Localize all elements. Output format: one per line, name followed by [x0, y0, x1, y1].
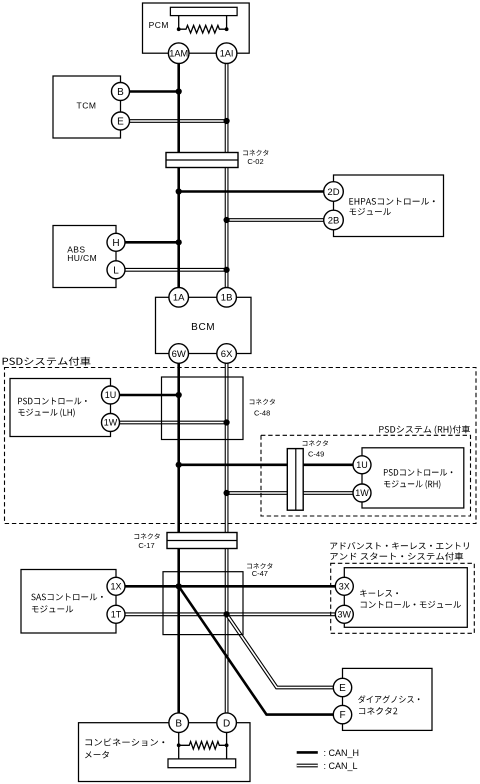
wire TCM pin B to CAN_H: [121, 90, 179, 93]
svg-text:1AM: 1AM: [169, 49, 188, 59]
svg-text:1W: 1W: [104, 418, 118, 428]
wire EHPAS pin 2D to CAN_H: [179, 190, 334, 193]
label combination meter line2: [85, 751, 109, 759]
svg-text:: CAN_H: : CAN_H: [324, 748, 360, 758]
label EHPAS line1: [349, 198, 434, 205]
label advanced keyless line2: [330, 552, 463, 560]
junction CAN_H / EHPAS 2D: [176, 188, 182, 194]
PCM internal wire right: [226, 16, 228, 30]
junction CAN_H / PSD-LH 1U: [176, 392, 182, 398]
legend CAN_L text: [324, 761, 358, 771]
dashed box: advanced keyless entry and start system equipped: [331, 563, 475, 633]
svg-text:PCM: PCM: [149, 20, 169, 30]
connector C-49 (in-line, vertical bar): [287, 449, 303, 511]
svg-text:C-47: C-47: [252, 569, 268, 578]
wire CAN_L branch to PSD-RH pin 1W via C-49: [227, 491, 362, 495]
svg-text:1B: 1B: [221, 293, 233, 304]
meter terminator bar: [168, 759, 236, 768]
module PSD control module (LH) box: [10, 379, 111, 437]
pin E (TCM CAN_L): [112, 112, 130, 130]
svg-text:D: D: [223, 718, 230, 729]
module EHPAS box: [334, 175, 444, 237]
pin 1U (PSD RH CAN_H): [353, 456, 371, 474]
svg-text:1U: 1U: [105, 390, 117, 400]
pin L (ABS CAN_L): [107, 261, 125, 279]
svg-text:F: F: [339, 710, 345, 721]
meter internal wire right upper: [226, 723, 228, 746]
pin D (meter CAN_L): [217, 713, 237, 733]
svg-text:: CAN_L: : CAN_L: [324, 761, 358, 771]
wire PSD-LH pin 1W to CAN_L: [111, 421, 227, 425]
label combination meter line1: [86, 738, 165, 746]
label SAS line2: [32, 605, 73, 612]
pin F (diagnosis CAN_H): [333, 705, 351, 723]
svg-text:H: H: [112, 238, 119, 249]
label ABS line1: [67, 244, 85, 254]
wire PSD-LH pin 1U to CAN_H: [111, 394, 179, 397]
pin B (TCM CAN_H): [112, 83, 130, 101]
svg-text:3W: 3W: [338, 610, 352, 620]
connector C-17 label: [134, 533, 159, 550]
PCM terminator bar: [170, 7, 237, 15]
junction CAN_L / TCM E: [224, 118, 230, 124]
dashed box: PSD system (RH) equipped: [261, 435, 471, 516]
meter internal wire left upper: [178, 723, 180, 746]
connector C-47 label: [247, 563, 272, 578]
label diagnosis line1: [358, 695, 419, 703]
connector C-47 (outline box): [163, 572, 243, 635]
connector C-48 label: [250, 399, 275, 418]
pin B (meter CAN_H): [169, 713, 189, 733]
module TCM box: [53, 76, 121, 138]
label advanced keyless line1: [330, 542, 469, 550]
svg-text:E: E: [117, 117, 124, 128]
label PSD system (RH) equipped: [379, 425, 470, 434]
junction CAN_L / PSD-RH branch: [224, 490, 230, 496]
label PSD system equipped vehicles: [3, 357, 91, 366]
label EHPAS line2: [350, 208, 391, 215]
pin 1U (PSD LH CAN_H): [102, 386, 120, 404]
label TCM: [77, 100, 97, 110]
svg-text:2B: 2B: [328, 215, 340, 226]
wire TCM pin E to CAN_L: [121, 119, 227, 123]
junction CAN_H / PSD-RH branch: [176, 462, 182, 468]
junction CAN_H / SAS 1X / diagonal to F: [176, 583, 182, 589]
pin 2D (EHPAS CAN_H): [324, 182, 344, 202]
svg-text:C-49: C-49: [308, 449, 324, 458]
legend CAN_L sample line: [297, 764, 318, 768]
svg-text:6X: 6X: [221, 349, 233, 360]
svg-text:1U: 1U: [356, 460, 368, 470]
label keyless line1: [360, 590, 398, 597]
pin 3X (keyless CAN_H): [335, 577, 353, 595]
svg-text:6W: 6W: [172, 349, 186, 360]
module PCM box: [143, 3, 250, 53]
connector C-49 label: [303, 440, 328, 458]
junction CAN_L / PSD-LH 1W: [224, 419, 230, 425]
wire SAS pin 1T to keyless pin 3W (through CAN_L junction): [116, 612, 344, 616]
wire EHPAS pin 2B to CAN_L: [227, 218, 334, 222]
label SAS line1: [31, 593, 103, 600]
connector C-17 (in-line, bar): [167, 533, 237, 549]
resistor combination meter (terminating): [177, 742, 229, 750]
pin 1X (SAS CAN_H): [107, 577, 125, 595]
label ABS line2: [67, 253, 97, 263]
pin 1T (SAS CAN_L): [107, 605, 125, 623]
label PSD LH line1: [18, 398, 87, 405]
meter internal wire left lower: [178, 745, 180, 759]
pin 3W (keyless CAN_L): [335, 605, 353, 623]
pin 6W (BCM bottom CAN_H): [169, 344, 189, 364]
wire CAN_L bus (vertical, 1AI to D): [225, 56, 229, 718]
svg-text:2D: 2D: [327, 187, 339, 198]
pin 2B (EHPAS CAN_L): [324, 210, 344, 230]
module PSD control module (RH) box: [362, 448, 464, 508]
svg-text:B: B: [175, 718, 182, 729]
label BCM: [191, 322, 215, 333]
pin 1A (BCM top CAN_H): [169, 288, 189, 308]
junction CAN_H / ABS H: [176, 239, 182, 245]
pin E (diagnosis CAN_L): [333, 678, 351, 696]
pin H (ABS CAN_H): [107, 233, 125, 251]
connector C-02 label: [243, 150, 268, 166]
svg-text:1W: 1W: [355, 488, 369, 498]
label keyless line2: [361, 601, 461, 608]
resistor PCM (terminating): [177, 25, 229, 33]
label diagnosis line2: [359, 707, 397, 715]
pin 1W (PSD LH CAN_L): [102, 414, 120, 432]
connector C-48 (outline box): [162, 377, 244, 440]
module ABS HU/CM box: [53, 226, 116, 288]
legend CAN_H sample line: [297, 751, 318, 754]
module SAS control module box: [21, 570, 116, 634]
dashed box: PSD system equipped vehicles: [5, 368, 477, 524]
wire CAN_L branch to diagnosis connector pin E (diagonal): [227, 614, 343, 687]
wire ABS pin L to CAN_L: [116, 268, 227, 272]
svg-text:E: E: [339, 683, 346, 694]
svg-text:C-17: C-17: [138, 541, 154, 550]
PCM internal wire left: [178, 16, 180, 30]
junction CAN_H / TCM B: [176, 88, 182, 94]
label PSD LH line2: [18, 408, 74, 417]
junction CAN_L / EHPAS 2B: [224, 217, 230, 223]
svg-text:TCM: TCM: [77, 100, 97, 110]
module BCM box: [156, 297, 252, 353]
svg-text:L: L: [113, 265, 119, 276]
wire CAN_H bus (vertical, 1AM to B): [177, 56, 180, 718]
label PCM: [149, 20, 169, 30]
module diagnosis connector 2 box: [343, 668, 433, 730]
wire SAS pin 1X to keyless pin 3X (through CAN_H junction): [116, 585, 344, 588]
pin 6X (BCM bottom CAN_L): [217, 344, 237, 364]
label PSD RH line1: [384, 469, 453, 476]
pin 1AM (PCM CAN_H): [168, 43, 189, 64]
connector C-02 (in-line, bar): [166, 153, 238, 168]
pin 1W (PSD RH CAN_L): [353, 484, 371, 502]
module combination meter box: [79, 723, 251, 782]
wire CAN_H branch to PSD-RH pin 1U via C-49: [179, 463, 362, 466]
svg-text:1X: 1X: [110, 582, 121, 592]
wire CAN_H branch to diagnosis connector pin F (diagonal): [179, 586, 343, 714]
svg-text:C-48: C-48: [254, 408, 270, 417]
junction CAN_L / SAS 1T / diagonal to E: [224, 611, 230, 617]
svg-text:HU/CM: HU/CM: [67, 253, 97, 263]
svg-text:B: B: [117, 87, 124, 98]
svg-text:C-02: C-02: [247, 157, 263, 166]
wire ABS pin H to CAN_H: [116, 241, 179, 244]
svg-text:BCM: BCM: [191, 322, 215, 333]
pin 1B (BCM top CAN_L): [217, 288, 237, 308]
module keyless control module box: [344, 568, 467, 628]
junction CAN_L / ABS L: [224, 267, 230, 273]
pin 1AI (PCM CAN_L): [216, 43, 237, 64]
svg-text:1A: 1A: [173, 293, 185, 304]
legend CAN_H text: [324, 748, 360, 758]
svg-text:1T: 1T: [111, 610, 122, 620]
svg-text:3X: 3X: [339, 582, 350, 592]
meter internal wire right lower: [226, 745, 228, 759]
svg-text:1AI: 1AI: [220, 49, 234, 59]
label PSD RH line2: [384, 480, 440, 489]
